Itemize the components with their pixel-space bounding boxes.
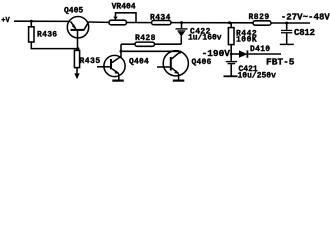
- svg-text:Q406: Q406: [192, 58, 212, 67]
- ground C421: [224, 75, 238, 77]
- capacitor C421: [226, 54, 237, 76]
- wire upper R428 line: [121, 43, 181, 45]
- resistor R436: [29, 27, 34, 42]
- node junction C422 tap: [180, 21, 183, 24]
- node junction base Q405: [77, 47, 80, 50]
- wire: [30, 21, 32, 27]
- svg-text:Q404: Q404: [129, 58, 149, 67]
- ground Q406: [173, 79, 185, 81]
- wire rail to R829: [171, 22, 253, 24]
- wire: [127, 22, 152, 24]
- svg-text:1u/160v: 1u/160v: [188, 34, 222, 43]
- svg-text:R436: R436: [37, 30, 57, 39]
- transistor Q404: [97, 55, 125, 80]
- capacitor C422: [176, 23, 188, 45]
- svg-text:C812: C812: [294, 28, 315, 38]
- svg-text:+V: +V: [1, 17, 10, 25]
- resistor R428: [135, 42, 155, 46]
- resistor R435: [74, 49, 79, 80]
- svg-text:Q405: Q405: [64, 7, 83, 16]
- resistor R829: [253, 21, 271, 25]
- wire: [271, 22, 310, 24]
- wire: [89, 21, 109, 23]
- svg-text:R829: R829: [249, 13, 270, 22]
- svg-text:10u/250v: 10u/250v: [238, 71, 277, 80]
- node junction R436 tap: [30, 20, 33, 23]
- transistor Q406: [157, 51, 188, 81]
- potentiometer VR404: [109, 13, 136, 25]
- node junction diode: [230, 53, 233, 56]
- svg-text:-27V~-48V: -27V~-48V: [281, 12, 330, 22]
- diode D410: [231, 50, 281, 57]
- wire collector drop: [120, 44, 122, 57]
- ground C812: [280, 43, 294, 45]
- svg-text:R435: R435: [80, 57, 101, 66]
- svg-text:R434: R434: [150, 13, 171, 22]
- capacitor C812: [281, 23, 292, 44]
- svg-text:100K: 100K: [236, 35, 257, 44]
- resistor R442: [228, 23, 234, 54]
- wire: [31, 42, 78, 49]
- node junction collector: [120, 50, 123, 53]
- svg-text:FBT-5: FBT-5: [266, 56, 295, 67]
- node +V: [0, 0, 1, 1]
- svg-text:VR404: VR404: [112, 2, 136, 11]
- svg-text:R428: R428: [135, 34, 156, 43]
- transistor Q405: [67, 17, 88, 49]
- wire: [14, 20, 70, 22]
- node junction R442 tap: [228, 21, 231, 24]
- node junction C812 tap: [285, 22, 288, 25]
- ground Q404: [112, 79, 124, 81]
- wire lower line to Q406: [121, 51, 180, 54]
- svg-text:D410: D410: [250, 45, 270, 54]
- resistor R434: [152, 21, 172, 25]
